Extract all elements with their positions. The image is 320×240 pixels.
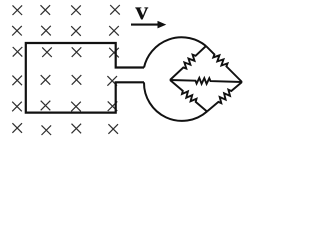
field cross row3 c4 xyxy=(109,48,119,58)
resistor R5 bridge middle xyxy=(170,78,242,84)
field cross row3 c2 xyxy=(42,47,52,57)
field cross row2 c3 xyxy=(71,26,81,36)
field cross row1 c4 xyxy=(110,5,120,15)
resistor R4 bottom-right arm xyxy=(207,82,242,112)
field cross row5 c2 xyxy=(41,101,51,111)
field cross row5 c4 xyxy=(108,101,118,111)
field cross row4 c4 xyxy=(107,76,117,86)
field cross row5 c3 xyxy=(71,102,81,112)
velocity label v xyxy=(135,7,148,19)
field cross row4 c2 xyxy=(41,75,51,85)
resistor R3 bottom-left arm xyxy=(170,80,207,112)
field cross row4 c1 xyxy=(12,76,22,86)
field cross row6 c3 xyxy=(72,124,82,134)
field cross row1 c1 xyxy=(13,5,23,15)
wire upper arc to bridge top node xyxy=(144,37,206,67)
conducting loop rectangle with leads xyxy=(26,43,144,113)
field cross row2 c1 xyxy=(12,26,22,36)
field cross row2 c4 xyxy=(109,26,119,36)
field cross row4 c3 xyxy=(72,75,82,85)
resistor R2 top-right arm xyxy=(206,46,242,82)
field cross row1 c3 xyxy=(71,5,81,15)
wire lower arc to bridge bottom node xyxy=(144,82,207,121)
field cross row6 c1 xyxy=(12,123,22,133)
velocity arrow xyxy=(131,22,165,28)
field cross row6 c2 xyxy=(42,125,52,135)
resistor R1 top-left arm xyxy=(170,46,206,80)
field cross row3 c3 xyxy=(72,47,82,57)
field cross row6 c4 xyxy=(108,124,118,134)
field cross row3 c1 xyxy=(13,47,23,57)
field cross row2 c2 xyxy=(41,26,51,36)
field cross row5 c1 xyxy=(12,102,22,112)
field cross row1 c2 xyxy=(41,5,51,15)
